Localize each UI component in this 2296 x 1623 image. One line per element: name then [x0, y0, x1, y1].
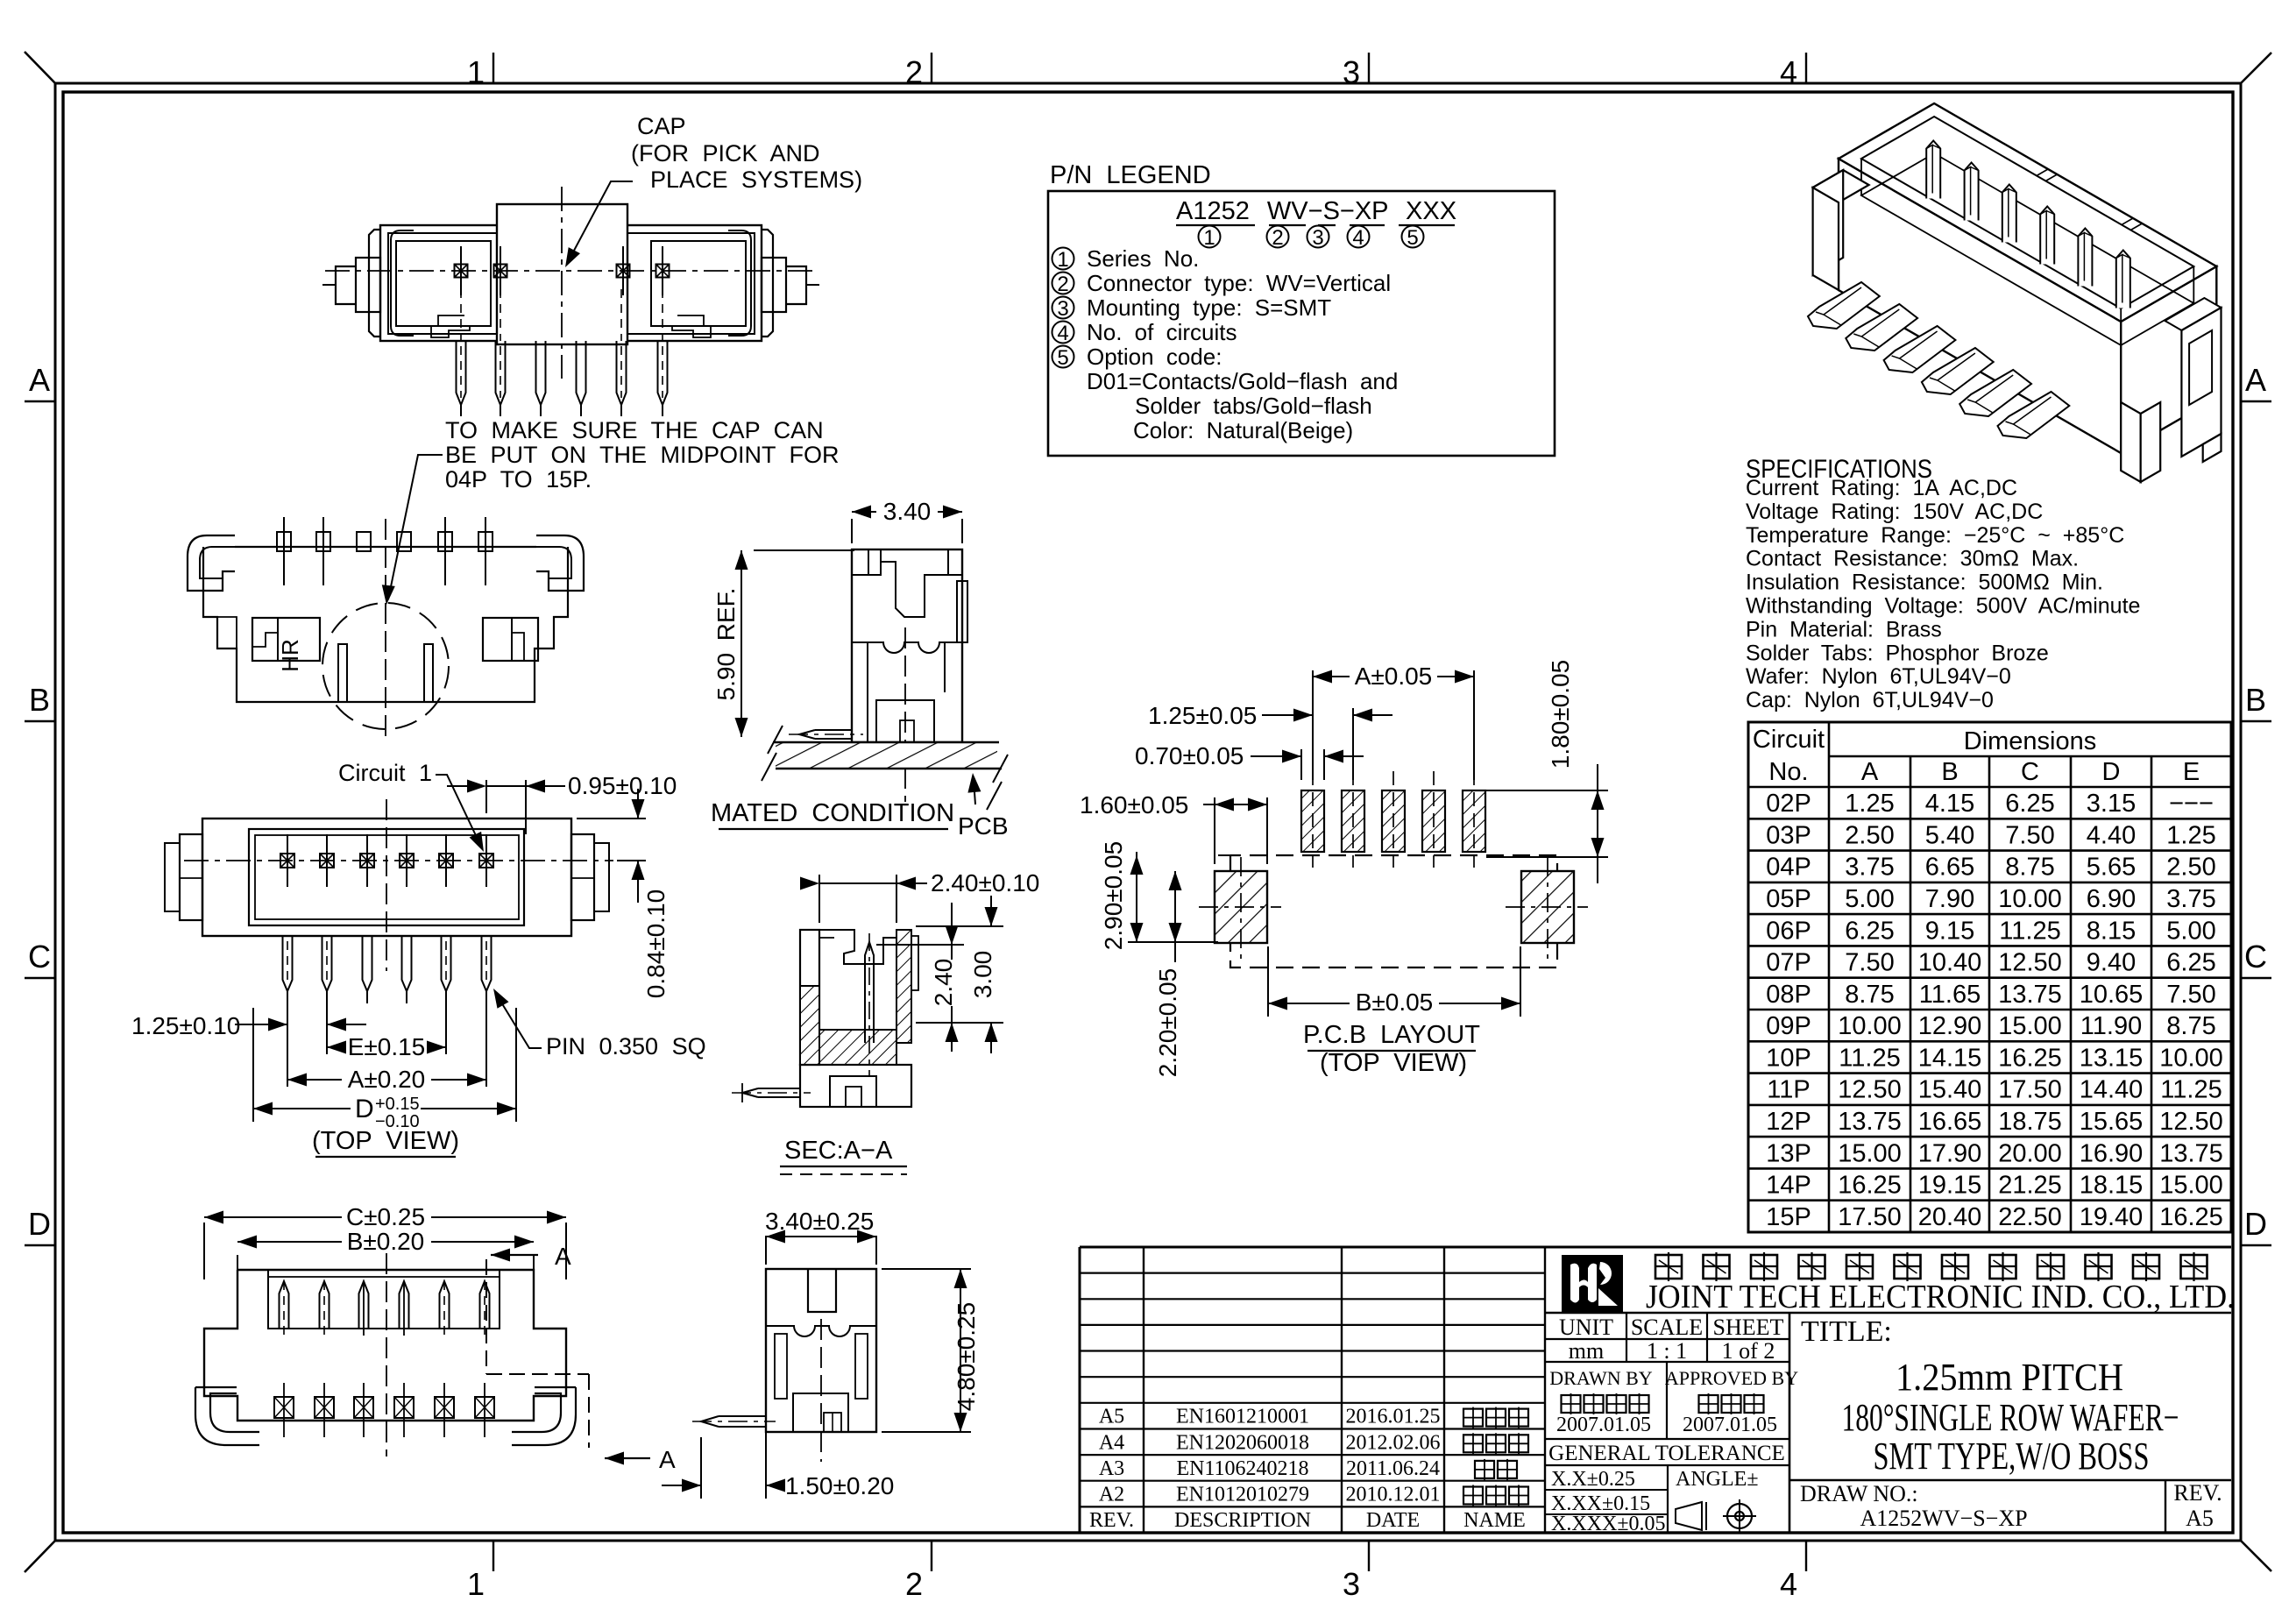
svg-text:1.80±0.05: 1.80±0.05	[1547, 660, 1574, 769]
svg-text:15.00: 15.00	[1838, 1139, 1902, 1167]
svg-text:15.00: 15.00	[2159, 1172, 2223, 1200]
svg-text:EN1601210001: EN1601210001	[1176, 1406, 1309, 1428]
isometric view: front face	[1839, 159, 2121, 453]
svg-text:6.90: 6.90	[2087, 885, 2136, 913]
svg-text:3.75: 3.75	[1845, 854, 1894, 882]
side section view: centerline	[820, 1319, 822, 1462]
front view: pin 5	[617, 341, 627, 405]
side view: top pin tab 1	[277, 532, 291, 551]
svg-text:4.80±0.25: 4.80±0.25	[953, 1302, 980, 1411]
svg-text:A±0.05: A±0.05	[1355, 663, 1433, 690]
svg-text:8.75: 8.75	[1845, 981, 1894, 1009]
dim 0.84±0.10 vertical	[577, 818, 646, 819]
isometric view: solder tab 5	[1959, 370, 2031, 416]
svg-text:TO MAKE SURE THE CAP CAN: TO MAKE SURE THE CAP CAN	[445, 417, 824, 443]
svg-text:E: E	[2183, 758, 2200, 786]
side section view: inner walls	[775, 1334, 787, 1399]
section A-A: dim 3.00 vertical	[916, 925, 1003, 927]
svg-text:09P: 09P	[1766, 1012, 1811, 1040]
side view: HR marking box	[252, 618, 320, 661]
side view: top pin tab 4	[397, 532, 411, 551]
svg-text:21.25: 21.25	[1998, 1172, 2062, 1200]
pcb layout: signal pad 3	[1382, 790, 1405, 852]
svg-text:7.50: 7.50	[2166, 981, 2215, 1009]
section A-A: dim 2.40±0.10	[818, 875, 820, 923]
top view: pin 3	[363, 936, 372, 991]
dim A±0.20	[287, 999, 288, 1087]
isometric view: pin 6	[2116, 251, 2130, 308]
front view: pin 6	[658, 341, 668, 405]
svg-text:4.40: 4.40	[2087, 821, 2136, 849]
svg-text:16.25: 16.25	[1838, 1172, 1902, 1200]
svg-text:1: 1	[1057, 248, 1068, 272]
svg-text:13P: 13P	[1766, 1139, 1811, 1167]
svg-text:JOINT TECH ELECTRONIC IND. CO.: JOINT TECH ELECTRONIC IND. CO., LTD.	[1646, 1279, 2235, 1315]
bottom view: vertical centerline	[386, 1253, 387, 1456]
drawn by / approved by	[1666, 1362, 1668, 1439]
svg-text:ANGLE±: ANGLE±	[1676, 1468, 1759, 1491]
isometric view: solder tab 3	[1884, 326, 1956, 372]
svg-text:B±0.20: B±0.20	[347, 1228, 425, 1255]
svg-text:3.00: 3.00	[969, 951, 996, 999]
side section view: top notch	[808, 1269, 836, 1312]
pcb layout: signal pad 2	[1342, 790, 1364, 852]
svg-text:2012.02.06: 2012.02.06	[1346, 1431, 1441, 1454]
svg-text:18.75: 18.75	[1998, 1108, 2062, 1136]
isometric view: cavity floor	[1861, 153, 2193, 345]
svg-text:Solder Tabs: Phosphor Broze: Solder Tabs: Phosphor Broze	[1746, 641, 2049, 665]
svg-text:EN1012010279: EN1012010279	[1176, 1484, 1309, 1506]
corner diagonal top-right	[2241, 53, 2271, 83]
svg-text:03P: 03P	[1766, 821, 1811, 849]
dim D +0.15/-0.10	[252, 1008, 254, 1122]
section A-A: center pin	[865, 942, 874, 1043]
svg-text:Option code:: Option code:	[1087, 344, 1222, 370]
top view: contact crosshair 1	[280, 854, 294, 868]
svg-text:10.00: 10.00	[1838, 1012, 1902, 1040]
side view: vertical centerline	[385, 519, 386, 741]
svg-text:PCB: PCB	[958, 812, 1009, 840]
svg-text:PIN 0.350 SQ: PIN 0.350 SQ	[546, 1033, 706, 1060]
svg-text:Withstanding Voltage: 500V AC/: Withstanding Voltage: 500V AC/minute	[1746, 594, 2140, 619]
svg-text:2: 2	[1057, 273, 1068, 296]
svg-text:2: 2	[1272, 226, 1283, 250]
svg-text:15.65: 15.65	[2080, 1108, 2144, 1136]
svg-text:5.00: 5.00	[1845, 885, 1894, 913]
side view: top pin tab 2	[316, 532, 330, 551]
circled number 2	[1267, 226, 1289, 248]
svg-text:5.00: 5.00	[2166, 917, 2215, 945]
svg-text:1 of 2: 1 of 2	[1722, 1338, 1775, 1364]
isometric view: body top face rim	[1839, 103, 2216, 322]
side section view: base block	[793, 1393, 848, 1432]
front view: connector body outline	[380, 225, 762, 341]
bottom view: pin 1 (pointing up)	[280, 1281, 289, 1329]
front view: right end latch bracket	[762, 230, 773, 337]
isometric view: cavity inner walls	[1860, 159, 1862, 195]
bottom view: dim C±0.25	[203, 1223, 205, 1279]
top view: contact crosshair 4	[400, 854, 414, 868]
svg-text:A1252 WV−S−XP XXX: A1252 WV−S−XP XXX	[1176, 197, 1456, 225]
svg-text:DRAWN BY: DRAWN BY	[1549, 1367, 1653, 1389]
section A-A: bottom hatched strip	[819, 1030, 896, 1065]
svg-text:04P TO 15P.: 04P TO 15P.	[445, 466, 592, 493]
svg-text:Dimensions: Dimensions	[1964, 727, 2097, 755]
bottom view: pin 5 (pointing up)	[440, 1281, 450, 1329]
svg-text:2.40±0.10: 2.40±0.10	[931, 869, 1039, 897]
svg-text:A4: A4	[1099, 1431, 1124, 1454]
top view: pin 2	[322, 936, 332, 991]
svg-text:1.50±0.20: 1.50±0.20	[785, 1472, 894, 1499]
company logo	[1563, 1256, 1622, 1311]
isometric view: solder tab 6	[1998, 392, 2070, 438]
svg-text:B: B	[1941, 758, 1958, 786]
svg-text:04P: 04P	[1766, 854, 1811, 882]
svg-text:SMT TYPE,W/O BOSS: SMT TYPE,W/O BOSS	[1874, 1435, 2150, 1478]
isometric view: solder tab 2	[1846, 304, 1917, 351]
svg-text:1.25: 1.25	[1845, 790, 1894, 818]
svg-text:Series No.: Series No.	[1087, 245, 1199, 272]
isometric view: right clip front hook	[2121, 402, 2141, 482]
svg-text:1.25mm PITCH: 1.25mm PITCH	[1896, 1356, 2123, 1399]
svg-text:1: 1	[467, 54, 485, 90]
svg-text:Connector type: WV=Vertical: Connector type: WV=Vertical	[1087, 270, 1391, 296]
cap leader line and arrow	[568, 181, 633, 262]
svg-text:4: 4	[1780, 1566, 1797, 1602]
svg-text:mm: mm	[1569, 1338, 1604, 1364]
svg-text:2016.01.25: 2016.01.25	[1346, 1406, 1441, 1428]
svg-text:17.90: 17.90	[1918, 1139, 1982, 1167]
svg-text:B: B	[2245, 682, 2266, 718]
svg-text:APPROVED BY: APPROVED BY	[1665, 1367, 1798, 1389]
svg-text:Voltage Rating: 150V AC,DC: Voltage Rating: 150V AC,DC	[1746, 500, 2043, 524]
front view: left bracket C-profile	[391, 230, 414, 336]
svg-text:6.25: 6.25	[2166, 949, 2215, 977]
svg-text:SCALE: SCALE	[1631, 1315, 1703, 1340]
bottom view: inner chamber	[268, 1270, 500, 1329]
title block outline	[1080, 1246, 2231, 1249]
svg-text:11.25: 11.25	[1999, 917, 2060, 945]
top view: horizontal centerline	[184, 860, 613, 861]
svg-text:GENERAL TOLERANCE: GENERAL TOLERANCE	[1548, 1442, 1785, 1465]
svg-text:REV.: REV.	[1089, 1509, 1134, 1532]
front view: vertical centerline through cap	[561, 187, 563, 379]
svg-text:No.: No.	[1768, 758, 1808, 786]
pcb layout: signal pad 4	[1422, 790, 1445, 852]
side view: body outline	[203, 547, 568, 702]
dimensions table frame	[1748, 722, 2231, 1232]
svg-text:2: 2	[905, 54, 923, 90]
section A-A: body right wall (hatched)	[896, 930, 911, 1043]
svg-text:7.50: 7.50	[1845, 949, 1894, 977]
mated condition: wafer scallops	[852, 642, 962, 653]
pcb layout: dim 1.60±0.05	[1214, 797, 1215, 864]
svg-text:3: 3	[1343, 1566, 1360, 1602]
svg-text:DESCRIPTION: DESCRIPTION	[1174, 1509, 1311, 1532]
svg-text:2010.12.01: 2010.12.01	[1346, 1484, 1441, 1506]
svg-text:Temperature Range: −25°C ~ +85: Temperature Range: −25°C ~ +85°C	[1746, 523, 2124, 548]
circled number 1	[1199, 226, 1221, 248]
side view: top pin tab 3	[357, 532, 371, 551]
svg-text:9.15: 9.15	[1925, 917, 1974, 945]
svg-text:B±0.05: B±0.05	[1356, 989, 1434, 1016]
svg-text:4: 4	[1352, 226, 1364, 250]
section A-A cut line bottom arrow	[605, 1452, 624, 1465]
isometric view: pin 4	[2040, 207, 2054, 265]
isometric view: rim inner edge	[1861, 117, 2193, 308]
front view: left chamber	[396, 241, 491, 326]
svg-text:5.40: 5.40	[1925, 821, 1974, 849]
svg-text:D01=Contacts/Gold−flash and: D01=Contacts/Gold−flash and	[1087, 368, 1398, 394]
bottom view: SMT pad 2	[315, 1397, 334, 1418]
section A-A: base block	[800, 1065, 911, 1107]
svg-text:4: 4	[1057, 322, 1068, 345]
svg-text:14.15: 14.15	[1918, 1044, 1982, 1072]
legend item 4	[1052, 322, 1074, 344]
svg-text:2.20±0.05: 2.20±0.05	[1154, 968, 1181, 1077]
svg-text:7.50: 7.50	[2005, 821, 2054, 849]
pcb layout: courtyard dashed outline	[1230, 855, 1557, 967]
legend item 3	[1052, 297, 1074, 319]
mated condition: dim 3.40	[851, 519, 853, 543]
svg-text:1.25: 1.25	[2166, 821, 2215, 849]
mated condition: connector body	[852, 549, 962, 742]
bottom view: pin 2 (pointing up)	[320, 1281, 330, 1329]
svg-text:REV.: REV.	[2173, 1480, 2222, 1506]
svg-text:02P: 02P	[1766, 790, 1811, 818]
svg-text:6.65: 6.65	[1925, 854, 1974, 882]
company section divider	[1545, 1312, 2231, 1315]
bottom view: pin 3 (pointing up)	[359, 1281, 369, 1329]
svg-text:19.40: 19.40	[2080, 1203, 2144, 1231]
svg-text:EN1106240218: EN1106240218	[1176, 1457, 1308, 1480]
svg-text:05P: 05P	[1766, 885, 1811, 913]
svg-text:22.50: 22.50	[1998, 1203, 2062, 1231]
svg-text:A: A	[2245, 362, 2266, 398]
svg-text:A: A	[659, 1446, 676, 1473]
front view: contact crosshair 2	[494, 265, 507, 278]
bottom view: dim B±0.20	[237, 1255, 238, 1279]
svg-text:3: 3	[1312, 226, 1323, 250]
front view: contact crosshair 1	[455, 265, 468, 278]
dim 0.95±0.10	[485, 780, 487, 813]
pcb layout: right anchor pad	[1521, 871, 1574, 943]
svg-text:X.XXX±0.05: X.XXX±0.05	[1551, 1513, 1666, 1535]
svg-text:(TOP VIEW): (TOP VIEW)	[1320, 1049, 1467, 1077]
svg-text:A: A	[1861, 758, 1879, 786]
svg-text:DATE: DATE	[1366, 1509, 1420, 1532]
company name Chinese	[1655, 1252, 1682, 1281]
svg-text:A2: A2	[1099, 1484, 1124, 1506]
svg-text:Color: Natural(Beige): Color: Natural(Beige)	[1133, 417, 1353, 443]
corner diagonal top-left	[25, 52, 55, 83]
svg-text:1.25±0.10: 1.25±0.10	[131, 1012, 240, 1039]
svg-text:C: C	[2021, 758, 2039, 786]
mated condition: solder tab	[815, 729, 852, 731]
top view: pin 4	[402, 936, 412, 991]
svg-text:HR: HR	[277, 639, 303, 672]
svg-text:17.50: 17.50	[1998, 1076, 2062, 1104]
unit scale sheet headers	[1626, 1313, 1627, 1362]
svg-text:3.75: 3.75	[2166, 885, 2215, 913]
svg-text:16.65: 16.65	[1918, 1108, 1982, 1136]
svg-text:A5: A5	[2186, 1506, 2214, 1531]
isometric view: pin 2	[1965, 163, 1979, 221]
svg-text:2007.01.05: 2007.01.05	[1556, 1414, 1651, 1436]
top view: contact crosshair 3	[360, 854, 374, 868]
svg-text:X.X±0.25: X.X±0.25	[1551, 1468, 1635, 1491]
front view: horizontal centerline	[325, 270, 817, 272]
top view: vertical centerline	[386, 799, 387, 971]
svg-text:2007.01.05: 2007.01.05	[1683, 1414, 1777, 1436]
svg-text:D: D	[28, 1206, 51, 1242]
section A-A: dim 2.40 vertical	[876, 944, 964, 946]
svg-text:Insulation Resistance: 500MΩ M: Insulation Resistance: 500MΩ Min.	[1746, 571, 2103, 595]
revision table rows	[1080, 1272, 1545, 1273]
svg-text:C±0.25: C±0.25	[346, 1203, 425, 1230]
front view: pin 2	[496, 341, 506, 405]
svg-text:16.25: 16.25	[2159, 1203, 2223, 1231]
svg-text:CAP: CAP	[637, 113, 686, 139]
draw no section	[1789, 1479, 2231, 1481]
svg-text:8.75: 8.75	[2005, 854, 2054, 882]
svg-text:5.90 REF.: 5.90 REF.	[712, 588, 740, 701]
svg-text:SEC:A−A: SEC:A−A	[784, 1137, 893, 1165]
svg-text:3.40: 3.40	[883, 498, 932, 525]
pcb layout: dim A±0.05	[1312, 670, 1314, 780]
top view: right end cap	[571, 834, 594, 920]
front view: pin 3	[536, 341, 546, 405]
pcb layout: signal pad 1	[1301, 790, 1324, 852]
svg-text:11.25: 11.25	[1839, 1044, 1900, 1072]
svg-text:13.75: 13.75	[1998, 981, 2062, 1009]
revision table columns	[1143, 1247, 1144, 1533]
svg-text:3: 3	[1343, 54, 1360, 90]
svg-text:14.40: 14.40	[2080, 1076, 2144, 1104]
svg-text:A±0.20: A±0.20	[348, 1066, 426, 1093]
pcb layout: left anchor pad	[1215, 871, 1267, 943]
circled number 5	[1402, 226, 1424, 248]
bottom view: left J-hook	[210, 1393, 237, 1413]
svg-text:E±0.15: E±0.15	[348, 1033, 426, 1060]
midpoint note leader	[388, 455, 443, 599]
svg-text:180°SINGLE ROW WAFER−: 180°SINGLE ROW WAFER−	[1842, 1396, 2179, 1439]
svg-text:10P: 10P	[1766, 1044, 1811, 1072]
svg-text:5: 5	[1407, 226, 1418, 250]
svg-text:+0.15: +0.15	[375, 1095, 420, 1114]
section A-A: top bridge and slot	[819, 930, 896, 964]
svg-text:DRAW NO.:: DRAW NO.:	[1800, 1481, 1918, 1506]
svg-text:11.25: 11.25	[2160, 1076, 2222, 1104]
svg-text:A5: A5	[1099, 1406, 1124, 1428]
svg-text:12.90: 12.90	[1918, 1012, 1982, 1040]
isometric view: solder tab 4	[1922, 348, 1994, 394]
svg-text:A1252WV−S−XP: A1252WV−S−XP	[1860, 1506, 2027, 1531]
side view: right detail box	[483, 618, 538, 661]
isometric view: pin 5	[2078, 229, 2092, 287]
isometric view: right clip U-notch	[2189, 330, 2212, 405]
svg-text:10.00: 10.00	[1998, 885, 2062, 913]
bottom view: SMT pad 5	[435, 1397, 454, 1418]
pcb layout: dim B±0.05	[1267, 946, 1269, 1017]
svg-text:A: A	[29, 362, 50, 398]
front view: contact dashed lines through body	[460, 289, 462, 341]
svg-text:UNIT: UNIT	[1559, 1315, 1613, 1340]
side view: slot left	[338, 644, 347, 702]
svg-text:Mounting type: S=SMT: Mounting type: S=SMT	[1087, 294, 1331, 321]
svg-text:0.84±0.10: 0.84±0.10	[642, 889, 670, 998]
front view: cap (for pick and place)	[497, 204, 627, 344]
svg-text:1.60±0.05: 1.60±0.05	[1080, 791, 1188, 819]
svg-text:20.40: 20.40	[1918, 1203, 1982, 1231]
svg-text:PLACE SYSTEMS): PLACE SYSTEMS)	[650, 167, 862, 193]
pcb layout: dim 1.80±0.05	[1486, 790, 1608, 791]
svg-text:Pin Material: Brass: Pin Material: Brass	[1746, 617, 1942, 641]
target symbol	[1727, 1504, 1752, 1528]
svg-text:16.25: 16.25	[1998, 1044, 2062, 1072]
side view: top pin tab 6	[478, 532, 493, 551]
corner diagonal bottom-right	[2241, 1541, 2271, 1571]
front view: right chamber	[651, 241, 746, 326]
svg-text:A: A	[555, 1243, 571, 1270]
side view: left bottom step	[217, 617, 237, 648]
svg-text:C: C	[2244, 939, 2267, 975]
svg-text:Cap: Nylon 6T,UL94V−0: Cap: Nylon 6T,UL94V−0	[1746, 688, 1994, 712]
svg-text:1 : 1: 1 : 1	[1647, 1338, 1687, 1364]
top view: pin 6	[482, 936, 492, 991]
pcb layout: dim 0.70±0.05	[1300, 749, 1302, 780]
svg-text:2: 2	[905, 1566, 923, 1602]
svg-text:11P: 11P	[1767, 1076, 1810, 1104]
svg-text:10.00: 10.00	[2159, 1044, 2223, 1072]
svg-text:07P: 07P	[1766, 949, 1811, 977]
front view: contact crosshair 4	[656, 265, 670, 278]
svg-text:(TOP VIEW): (TOP VIEW)	[312, 1127, 459, 1155]
svg-text:4.15: 4.15	[1925, 790, 1974, 818]
svg-text:08P: 08P	[1766, 981, 1811, 1009]
mated condition: centerline	[904, 627, 906, 802]
side view: midpoint dashed circle	[322, 603, 449, 729]
svg-text:11.90: 11.90	[2080, 1012, 2142, 1040]
svg-text:1.25±0.05: 1.25±0.05	[1148, 702, 1257, 729]
bottom view: SMT pad 1	[274, 1397, 294, 1418]
svg-text:7.90: 7.90	[1925, 885, 1974, 913]
mated condition: dim 5.90 REF.	[754, 549, 854, 551]
isometric view: right clip side plate	[2165, 298, 2221, 330]
svg-text:−−−: −−−	[2169, 790, 2214, 818]
bottom view: SMT pad 6	[475, 1397, 494, 1418]
svg-text:15.00: 15.00	[1998, 1012, 2062, 1040]
svg-text:Current Rating: 1A AC,DC: Current Rating: 1A AC,DC	[1746, 476, 2017, 500]
svg-text:18.15: 18.15	[2080, 1172, 2144, 1200]
bottom view: pin 6 (pointing up)	[480, 1281, 490, 1329]
svg-text:2.40: 2.40	[930, 959, 957, 1007]
svg-text:Circuit: Circuit	[1753, 726, 1825, 754]
svg-text:2.50: 2.50	[1845, 821, 1894, 849]
front view: pin 4	[577, 341, 586, 405]
corner diagonal bottom-left	[25, 1541, 55, 1572]
svg-text:15.40: 15.40	[1918, 1076, 1982, 1104]
pcb layout: dim 1.25±0.05	[1312, 708, 1314, 780]
svg-text:13.75: 13.75	[2159, 1139, 2223, 1167]
svg-text:13.75: 13.75	[1838, 1108, 1902, 1136]
svg-text:6.25: 6.25	[2005, 790, 2054, 818]
side section view: dim 1.50±0.20	[765, 1432, 767, 1499]
dim E±0.15	[326, 999, 328, 1054]
svg-text:12.50: 12.50	[2159, 1108, 2223, 1136]
svg-text:8.75: 8.75	[2166, 1012, 2215, 1040]
svg-text:2.50: 2.50	[2166, 854, 2215, 882]
